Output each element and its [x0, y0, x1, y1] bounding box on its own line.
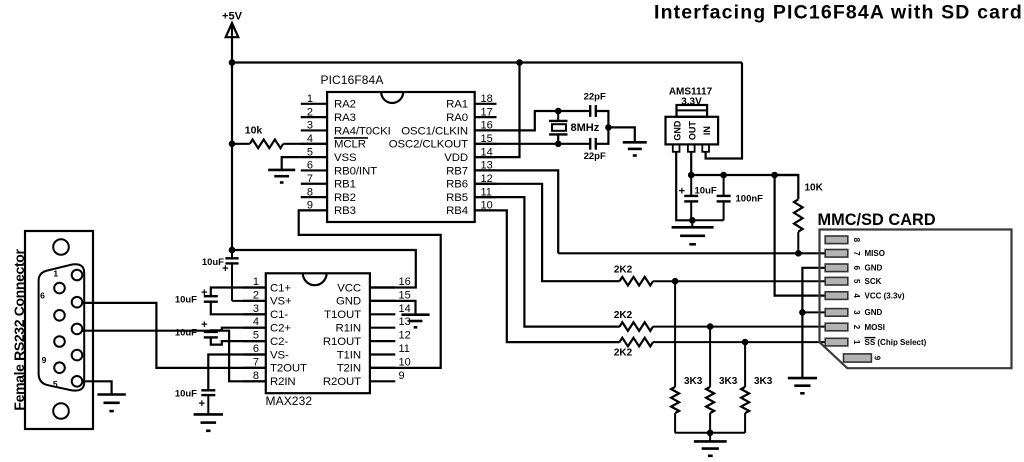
wire MAX232 pin 6 stub — [243, 353, 266, 355]
svg-text:GND: GND — [673, 120, 683, 141]
capacitor C1 22pF top — [589, 110, 591, 112]
svg-text:9: 9 — [399, 370, 405, 382]
svg-text:SS (Chip Select): SS (Chip Select) — [865, 338, 927, 347]
wire MAX232 pin 8 stub — [243, 380, 266, 382]
svg-text:10uF: 10uF — [175, 295, 197, 306]
svg-text:GND: GND — [865, 308, 883, 317]
wire MAX232 pin 1 stub — [243, 286, 266, 288]
svg-text:RA1: RA1 — [446, 99, 468, 111]
svg-text:5: 5 — [852, 279, 861, 284]
svg-text:R2OUT: R2OUT — [323, 376, 361, 388]
svg-text:14: 14 — [481, 146, 493, 158]
resistor R1 10k MCLR pull-up — [232, 143, 250, 145]
wire RB4 to SS divider — [475, 210, 620, 342]
node +5V rail / MAX232 supply junction — [229, 59, 236, 66]
svg-text:MAX232: MAX232 — [266, 394, 313, 408]
DB9 shell D-shape — [39, 264, 85, 390]
pin pad 4 — [825, 292, 848, 300]
wire MAX232 pin 7 stub — [243, 367, 266, 369]
node 100nF tap — [720, 172, 727, 179]
svg-text:OSC1/CLKIN: OSC1/CLKIN — [401, 125, 468, 137]
svg-text:2K2: 2K2 — [614, 310, 633, 321]
svg-text:RB3: RB3 — [334, 205, 356, 217]
svg-text:4: 4 — [253, 316, 259, 328]
wire RB3 to MAX232 T2IN — [299, 210, 441, 368]
svg-text:15: 15 — [399, 289, 411, 301]
ground PIC VSS — [282, 157, 301, 170]
svg-text:RA2: RA2 — [334, 99, 356, 111]
wire PIC pin 18 stub — [475, 103, 497, 105]
wire PIC pin 12 stub — [475, 183, 497, 185]
svg-text:RA0: RA0 — [446, 112, 468, 124]
svg-text:1: 1 — [253, 276, 259, 288]
IC U2 MAX232 body — [266, 273, 370, 393]
svg-text:RB4: RB4 — [446, 205, 468, 217]
capacitor C6 10uF C1+/C1- — [211, 288, 266, 297]
svg-text:3K3: 3K3 — [754, 376, 773, 387]
ground MAX232 GND — [401, 313, 429, 316]
svg-text:Female RS232 Connector: Female RS232 Connector — [11, 249, 27, 411]
svg-text:2: 2 — [253, 289, 259, 301]
wire MAX232 pin 10 stub — [370, 367, 395, 369]
svg-text:VSS: VSS — [334, 152, 357, 164]
svg-text:8: 8 — [253, 370, 259, 382]
node 3.3V OUT junction — [688, 172, 695, 179]
svg-text:+5V: +5V — [222, 11, 243, 23]
svg-text:8MHz: 8MHz — [571, 122, 600, 134]
svg-text:7: 7 — [852, 251, 861, 256]
resistor R3 2K2 SCK — [620, 277, 654, 286]
svg-text:10: 10 — [399, 356, 411, 368]
wire PIC pin 15 stub — [475, 143, 497, 145]
ground DB9 pin5 — [97, 393, 125, 396]
svg-text:VS-: VS- — [270, 349, 289, 361]
wire MAX232 pin 9 stub — [370, 380, 395, 382]
svg-text:RA4/T0CKI: RA4/T0CKI — [334, 125, 391, 137]
svg-text:17: 17 — [481, 106, 493, 118]
node 22pF caps junction — [605, 124, 612, 131]
svg-text:8: 8 — [307, 186, 313, 198]
resistor R7 3K3 MOSI — [709, 327, 711, 387]
wire RB6 to SCK divider — [475, 184, 620, 281]
wire +5V rail to AMS1117 IN — [706, 63, 742, 159]
svg-text:3: 3 — [852, 310, 861, 315]
svg-text:8: 8 — [852, 238, 861, 243]
pin 6 circle — [54, 283, 65, 294]
crystal X1 8MHz — [557, 111, 559, 121]
pin 2 circle — [72, 297, 83, 308]
wire VDD branch — [475, 63, 520, 158]
mounting hole top — [53, 239, 69, 255]
node SS divider junction — [742, 339, 749, 346]
pin pad 8 — [825, 236, 848, 244]
svg-text:3: 3 — [307, 120, 313, 132]
pin stub OUT — [688, 144, 695, 151]
ground MMC/SD card — [788, 377, 817, 380]
svg-text:10uF: 10uF — [695, 185, 717, 196]
svg-text:RB0/INT: RB0/INT — [334, 165, 377, 177]
svg-text:22pF: 22pF — [584, 151, 606, 162]
wire PIC pin 11 stub — [475, 196, 497, 198]
pin pad 5 — [825, 277, 848, 285]
ground VS- capacitor — [194, 413, 223, 416]
wire RB5 to MOSI divider — [475, 197, 620, 327]
svg-text:4: 4 — [307, 133, 313, 145]
wire PIC pin 10 stub — [475, 209, 497, 211]
node card GND junction — [799, 309, 806, 316]
svg-text:RB6: RB6 — [446, 179, 468, 191]
svg-text:RB1: RB1 — [334, 179, 356, 191]
pin pad 2 — [825, 323, 848, 331]
pin 5 circle — [72, 376, 83, 387]
node 10K / MISO junction — [795, 250, 802, 257]
wire MAX232 pin 3 stub — [243, 313, 266, 315]
wire 3K3 ground rail — [675, 432, 745, 434]
mounting hole bottom — [53, 403, 69, 419]
pin pad 7 — [825, 250, 848, 258]
svg-text:6: 6 — [307, 160, 313, 172]
pin pad 3 — [825, 309, 848, 317]
svg-text:OUT: OUT — [687, 121, 697, 141]
svg-text:100nF: 100nF — [736, 194, 764, 205]
node 3.3V ground junction — [689, 217, 696, 224]
svg-text:6: 6 — [40, 291, 45, 301]
svg-text:1: 1 — [53, 269, 58, 279]
svg-text:IN: IN — [702, 126, 712, 135]
svg-text:MISO: MISO — [865, 249, 885, 258]
svg-text:14: 14 — [399, 303, 411, 315]
svg-text:GND: GND — [336, 296, 361, 308]
node 10k junction — [229, 141, 236, 148]
wire VCC 3.3V to card pin 4 — [775, 175, 826, 296]
wire PIC pin 2 stub — [301, 116, 327, 118]
node +5V / 10uF junction — [229, 247, 236, 254]
svg-text:10uF: 10uF — [175, 328, 197, 339]
svg-text:10k: 10k — [245, 125, 263, 137]
svg-text:16: 16 — [399, 276, 411, 288]
svg-text:7: 7 — [307, 173, 313, 185]
node 3K3 rail junction — [707, 430, 714, 437]
wire PIC pin 16 stub — [475, 129, 497, 131]
resistor R6 3K3 SCK — [674, 281, 676, 387]
svg-text:3: 3 — [253, 303, 259, 315]
wire MAX232 pin 11 stub — [370, 353, 395, 355]
wire DB9 pin3 to R2IN — [82, 331, 265, 382]
svg-text:11: 11 — [399, 343, 410, 355]
svg-text:VCC: VCC — [337, 282, 361, 294]
svg-text:18: 18 — [481, 93, 493, 105]
svg-text:C1-: C1- — [270, 309, 288, 321]
svg-text:2K2: 2K2 — [614, 348, 633, 359]
wire card GND pins — [802, 268, 825, 378]
svg-text:RB5: RB5 — [446, 192, 468, 204]
svg-text:+: + — [199, 398, 205, 410]
wire PIC pin 3 stub — [301, 129, 327, 131]
wire AMS GND to ground rail — [676, 152, 692, 221]
wire PIC pin 13 stub — [475, 169, 497, 171]
svg-text:6: 6 — [852, 266, 861, 271]
wire DB9 pin2 to T2OUT — [82, 303, 265, 368]
svg-text:SCK: SCK — [865, 277, 882, 286]
resistor R8 3K3 SS — [744, 342, 746, 387]
overline MCLR — [334, 137, 368, 139]
svg-text:Interfacing PIC16F84A with SD: Interfacing PIC16F84A with SD card — [654, 2, 1023, 24]
svg-text:T1OUT: T1OUT — [324, 309, 361, 321]
svg-text:3K3: 3K3 — [684, 376, 703, 387]
connector J1 DB9 outer body — [25, 231, 93, 429]
svg-text:5: 5 — [53, 379, 58, 389]
pin pad 1 — [825, 338, 848, 346]
svg-text:+: + — [201, 319, 207, 331]
svg-text:T1IN: T1IN — [337, 349, 361, 361]
pin 9 circle — [54, 362, 65, 373]
svg-text:9: 9 — [873, 356, 882, 361]
svg-text:R2IN: R2IN — [270, 376, 296, 388]
svg-text:6: 6 — [253, 343, 259, 355]
pin 1 circle — [72, 270, 83, 281]
svg-text:VDD: VDD — [444, 152, 468, 164]
wire PIC pin 1 stub — [301, 103, 327, 105]
pin pad 9 — [844, 354, 872, 362]
node MOSI divider junction — [707, 323, 714, 330]
pin pad 6 — [825, 264, 848, 272]
svg-text:+: + — [201, 287, 207, 299]
svg-text:RA3: RA3 — [334, 112, 356, 124]
svg-text:+: + — [222, 263, 228, 275]
svg-text:T2OUT: T2OUT — [270, 363, 307, 375]
wire AMS OUT 3.3V rail — [690, 152, 692, 175]
capacitor C5 10uF VCC-VS+ — [231, 250, 233, 258]
capacitor C8 10uF VS- — [208, 355, 265, 391]
wire MAX232 pin 14 stub — [370, 313, 395, 315]
wire +5V rail — [232, 61, 742, 63]
svg-text:RB2: RB2 — [334, 192, 356, 204]
svg-text:10uF: 10uF — [202, 257, 224, 268]
wire MAX232 pin 16 stub — [370, 286, 395, 288]
resistor R5 2K2 SS — [620, 338, 654, 347]
svg-text:5: 5 — [253, 330, 259, 342]
ground crystal caps — [623, 141, 647, 144]
svg-text:1: 1 — [852, 340, 861, 345]
svg-text:OSC2/CLKOUT: OSC2/CLKOUT — [389, 139, 468, 151]
svg-text:PIC16F84A: PIC16F84A — [321, 73, 384, 87]
node VDD tap on +5V rail — [516, 59, 523, 66]
svg-text:2: 2 — [307, 106, 313, 118]
svg-text:T2IN: T2IN — [337, 363, 361, 375]
svg-text:2: 2 — [852, 325, 861, 330]
svg-text:7: 7 — [253, 356, 259, 368]
wire MISO row — [558, 252, 825, 254]
svg-text:C2+: C2+ — [270, 323, 291, 335]
svg-text:MCLR: MCLR — [334, 139, 366, 151]
svg-text:12: 12 — [399, 330, 411, 342]
svg-text:VCC (3.3v): VCC (3.3v) — [865, 291, 905, 300]
overline SS — [865, 337, 876, 339]
wire PIC pin 7 stub — [301, 183, 327, 185]
wire MAX232 pin 2 stub — [243, 300, 266, 302]
wire GND pin15 to ground — [370, 301, 416, 315]
pin 7 circle — [54, 310, 65, 321]
svg-text:MMC/SD CARD: MMC/SD CARD — [818, 211, 936, 229]
svg-text:4: 4 — [852, 293, 861, 298]
wire PIC pin 4 stub — [301, 143, 327, 145]
wire OSC2 to crystal bottom — [475, 143, 591, 145]
wire MAX232 pin 13 stub — [370, 327, 395, 329]
wire MAX232 pin 4 stub — [243, 327, 266, 329]
capacitor C4 100nF — [723, 175, 725, 196]
svg-text:VS+: VS+ — [270, 296, 292, 308]
svg-text:5: 5 — [307, 146, 313, 158]
capacitor C3 10uF on 3.3V — [690, 175, 692, 196]
svg-text:10uF: 10uF — [175, 388, 197, 399]
ground 3K3 dividers — [709, 433, 711, 442]
svg-text:GND: GND — [865, 264, 883, 273]
IC U1 PIC16F84A microcontroller body — [327, 92, 475, 222]
svg-text:RB7: RB7 — [446, 165, 468, 177]
node crystal bottom junction — [555, 141, 562, 148]
svg-text:9: 9 — [42, 355, 47, 365]
wire PIC pin 9 stub — [301, 209, 327, 211]
ground AMS1117 — [691, 220, 693, 227]
svg-text:C2-: C2- — [270, 336, 288, 348]
capacitor C2 22pF bottom — [589, 138, 591, 150]
svg-text:+: + — [679, 185, 685, 197]
wire OSC1 to crystal top — [475, 111, 591, 130]
resistor R4 2K2 MOSI — [620, 322, 654, 331]
wire VCC pin16 to +5V — [232, 250, 416, 288]
svg-text:R1IN: R1IN — [335, 323, 361, 335]
node VCC3.3 card branch tap — [771, 172, 778, 179]
wire DB9 pin5 to ground — [82, 381, 111, 394]
svg-text:10K: 10K — [805, 183, 824, 194]
pin 8 circle — [54, 336, 65, 347]
pin 3 circle — [72, 324, 83, 335]
wire +5V down to MAX232 area — [231, 63, 233, 251]
wire PIC pin 5 stub — [301, 156, 327, 158]
resistor R2 10K MISO pull-up — [775, 175, 799, 199]
wire RB7 to MISO — [475, 170, 559, 253]
wire MAX232 pin 5 stub — [243, 340, 266, 342]
svg-text:2K2: 2K2 — [614, 265, 633, 276]
pin 4 circle — [72, 350, 83, 361]
svg-text:C1+: C1+ — [270, 282, 291, 294]
svg-text:MOSI: MOSI — [865, 323, 885, 332]
wire PIC pin 6 stub — [301, 169, 327, 171]
node crystal top junction — [555, 108, 562, 115]
wire PIC pin 14 stub — [475, 156, 497, 158]
svg-text:R1OUT: R1OUT — [323, 336, 361, 348]
svg-text:22pF: 22pF — [584, 92, 606, 103]
wire MAX232 pin 12 stub — [370, 340, 395, 342]
svg-text:1: 1 — [307, 93, 313, 105]
pin stub IN — [702, 144, 709, 151]
pin stub GND — [673, 144, 680, 151]
wire PIC pin 17 stub — [475, 116, 497, 118]
node SCK divider junction — [672, 278, 679, 285]
wire PIC pin 8 stub — [301, 196, 327, 198]
svg-text:3K3: 3K3 — [719, 376, 738, 387]
wire caps to ground — [608, 127, 634, 142]
capacitor C7 10uF C2+/C2- — [211, 328, 266, 332]
wire MAX232 pin 15 stub — [370, 300, 395, 302]
